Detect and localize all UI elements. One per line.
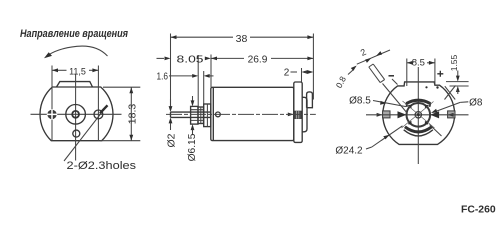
svg-text:FC-260: FC-260 <box>461 205 496 216</box>
washer line <box>200 107 202 124</box>
extension line body face <box>210 55 212 88</box>
label Ø24.2 <box>335 126 402 157</box>
extension line disc face <box>203 71 205 104</box>
leader 2-Ø2.3 holes <box>64 105 136 172</box>
centerline arrowhead at body edge <box>288 113 294 117</box>
dimension 1.6 <box>157 71 214 82</box>
svg-text:11,5: 11,5 <box>69 67 86 77</box>
left hole white cross <box>47 109 57 119</box>
front disc <box>204 104 211 127</box>
left view outline <box>40 87 113 141</box>
disc inner line <box>206 104 208 127</box>
svg-text:Ø6.15: Ø6.15 <box>187 133 198 161</box>
svg-text:18.3: 18.3 <box>127 104 139 125</box>
svg-text:38: 38 <box>236 33 248 45</box>
middle view bushing <box>191 106 198 124</box>
washer stack <box>198 107 204 124</box>
minus mark <box>389 75 395 77</box>
flange line <box>212 87 214 140</box>
rear right tab <box>448 111 455 118</box>
rear vertical centerline <box>417 67 419 164</box>
rear centerline arrowhead right <box>448 113 454 117</box>
dimension Ø6.15 arrows <box>191 96 195 135</box>
rear thick top arc <box>406 100 430 103</box>
svg-text:2-Ø2.3holes: 2-Ø2.3holes <box>67 160 137 172</box>
terminal detail ext line A <box>369 67 380 83</box>
svg-text:26.9: 26.9 <box>248 54 268 65</box>
svg-text:Направление вращения: Направление вращения <box>20 28 129 40</box>
svg-text:Ø24.2: Ø24.2 <box>335 146 363 157</box>
dimension 2 (middle) <box>284 67 314 78</box>
right terminal tab X <box>445 86 456 100</box>
svg-text:8.05: 8.05 <box>177 54 204 65</box>
rear centerline arrowhead left <box>377 113 383 117</box>
dimension 18.3 <box>100 87 140 141</box>
shaft end circle <box>415 112 421 118</box>
terminal detail dim line 2 <box>357 50 390 64</box>
extension line right (11,5) <box>97 66 99 141</box>
bottom hole <box>73 130 80 137</box>
middle view axis centerline <box>166 113 316 115</box>
plus mark <box>437 71 443 77</box>
terminal tab end caps <box>369 64 385 83</box>
top arc end hooks <box>406 103 430 107</box>
bearing bump <box>302 97 307 132</box>
dimension 11,5 <box>52 67 98 77</box>
extension line cap right <box>312 34 314 100</box>
left view shaft hole <box>72 111 79 118</box>
svg-text:1.6: 1.6 <box>157 71 169 82</box>
small circle on flange <box>216 112 221 117</box>
svg-text:8.5: 8.5 <box>412 58 425 69</box>
rear outer bottom arc <box>404 130 433 136</box>
extension line terminal tip <box>301 68 303 82</box>
center dot <box>417 113 420 116</box>
dimension Ø2 arrows <box>169 99 173 130</box>
lower right diagonal <box>430 125 442 137</box>
svg-text:Ø2: Ø2 <box>166 133 178 147</box>
brush diagonal 1 <box>403 101 435 128</box>
dimension 38 <box>171 33 314 45</box>
terminal side view <box>307 92 313 108</box>
rear view outline <box>383 82 455 144</box>
label Ø8.5 <box>349 95 406 106</box>
dimension 8.5 <box>407 58 435 86</box>
extension line left (11,5) <box>51 66 53 141</box>
brush diagonal 2 <box>402 102 434 129</box>
right mounting hole <box>94 110 103 119</box>
rear thick bottom arc <box>405 127 432 132</box>
bushing inner lines <box>191 110 204 121</box>
svg-text:Ø8.5: Ø8.5 <box>349 95 371 106</box>
left view boss circle <box>66 105 86 125</box>
left brush wedge <box>398 111 407 118</box>
svg-text:Ø8: Ø8 <box>469 97 483 108</box>
svg-text:2: 2 <box>284 67 290 78</box>
rotation arc arrow <box>44 46 108 58</box>
rear left tab <box>383 111 390 118</box>
extension line shaft end <box>170 34 172 107</box>
extension line bushing face <box>197 55 199 106</box>
dot below plus <box>436 86 438 88</box>
svg-text:1.55: 1.55 <box>449 54 459 71</box>
left view vertical centerline <box>75 74 77 161</box>
end cap <box>294 82 302 142</box>
dimension 1.55 <box>446 54 469 94</box>
rear horizontal centerline <box>366 114 469 116</box>
dot near center top <box>425 86 427 88</box>
left mounting hole <box>47 110 56 119</box>
0.8 arrow <box>348 66 357 75</box>
brush block hatched <box>294 111 301 119</box>
terminal detail arrows <box>365 58 371 63</box>
motor body <box>211 87 294 140</box>
dimension 26.9 <box>211 54 313 65</box>
left view horizontal centerline <box>31 113 122 115</box>
minus terminal line <box>392 79 398 85</box>
right brush wedge <box>430 111 439 118</box>
circle dots <box>408 105 428 124</box>
terminal leader into view <box>383 84 408 114</box>
rear inner circle <box>407 103 431 127</box>
dimension 8.05 <box>157 54 211 65</box>
terminal detail ext line B <box>373 64 384 80</box>
left view top cap <box>57 82 93 87</box>
label Ø8 <box>431 97 483 113</box>
middle view shaft <box>171 112 211 117</box>
